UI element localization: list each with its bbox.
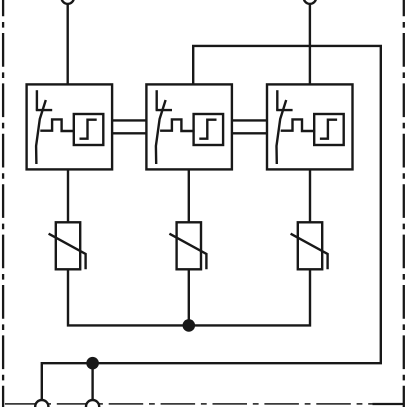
terminal X2 (top right)	[304, 0, 316, 4]
varistor RV1	[49, 222, 86, 269]
wire: terminal X2 down to module U3	[309, 3, 311, 84]
frame: right dash-dot border	[403, 0, 405, 407]
protection module U3 (thermal disconnector with signalling contact)	[267, 84, 353, 169]
node: junction dot on common bus	[183, 319, 196, 332]
protection module U2 (thermal disconnector with signalling contact)	[146, 84, 232, 169]
wire: varistor RV2 down to common bus	[188, 269, 190, 325]
wire: module U2 down to varistor RV2	[188, 169, 190, 222]
wire: terminal X1 down to module U1	[66, 3, 68, 84]
wire: module U3 down to varistor RV3	[309, 169, 311, 222]
mechanical coupling U1-U2 (double line)	[112, 120, 146, 133]
wire: top horizontal branch to module U2 and right drop to bottom rail	[42, 46, 381, 400]
frame: left dash-dot border	[2, 0, 4, 407]
terminal X4 (bottom)	[86, 400, 99, 407]
mechanical coupling U2-U3 (double line)	[232, 120, 267, 133]
terminal X3 (bottom left)	[35, 400, 48, 407]
frame: bottom dash-dot border (faded)	[0, 403, 407, 405]
wire: junction dot down to terminal X4	[91, 363, 93, 400]
frame: bottom border right corner dash	[373, 403, 405, 405]
varistor RV2	[169, 222, 206, 269]
node: junction dot on bottom rail	[86, 357, 99, 370]
wire: module U1 down to varistor RV1	[67, 169, 69, 222]
varistor RV3	[291, 222, 328, 269]
terminal X1 (top left)	[61, 0, 73, 4]
protection module U1 (thermal disconnector with signalling contact)	[27, 84, 113, 169]
wire: common bus joining varistor bottoms	[68, 269, 310, 325]
